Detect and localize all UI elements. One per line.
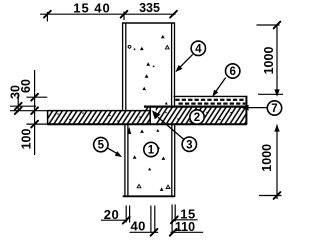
svg-text:4: 4 (195, 43, 202, 55)
svg-text:5: 5 (98, 140, 105, 152)
svg-text:60: 60 (19, 79, 33, 93)
svg-text:15: 15 (73, 0, 89, 15)
svg-text:1: 1 (148, 145, 155, 157)
svg-text:335: 335 (139, 1, 160, 15)
svg-text:100: 100 (20, 129, 34, 150)
svg-text:3: 3 (186, 139, 192, 151)
svg-text:1000: 1000 (260, 144, 274, 172)
svg-text:1000: 1000 (262, 47, 276, 75)
svg-text:40: 40 (130, 219, 145, 234)
svg-text:20: 20 (104, 207, 119, 222)
svg-text:6: 6 (229, 66, 235, 78)
svg-text:110: 110 (175, 220, 195, 234)
svg-text:7: 7 (271, 103, 277, 115)
svg-text:2: 2 (194, 112, 200, 124)
svg-text:40: 40 (94, 0, 110, 15)
